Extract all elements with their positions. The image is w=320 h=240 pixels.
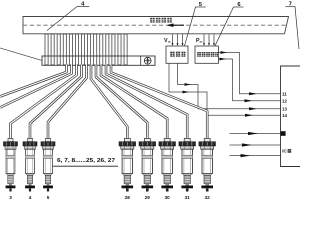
svg-text:IC: IC — [282, 149, 287, 154]
svg-text:m: m — [200, 40, 203, 44]
svg-text:4: 4 — [29, 195, 32, 200]
svg-text:3: 3 — [9, 195, 12, 200]
svg-text:28: 28 — [125, 195, 131, 200]
svg-text:30: 30 — [165, 195, 171, 200]
svg-text:31: 31 — [185, 195, 191, 200]
svg-text:14: 14 — [282, 113, 287, 118]
svg-text:6, 7, 8......25, 26, 27: 6, 7, 8......25, 26, 27 — [57, 158, 115, 164]
svg-text:11: 11 — [282, 92, 287, 97]
svg-text:13: 13 — [282, 107, 287, 112]
svg-text:12: 12 — [282, 99, 287, 104]
svg-text:29: 29 — [145, 195, 151, 200]
svg-text:5: 5 — [47, 195, 50, 200]
svg-text:32: 32 — [205, 195, 211, 200]
svg-text:m: m — [168, 40, 171, 44]
